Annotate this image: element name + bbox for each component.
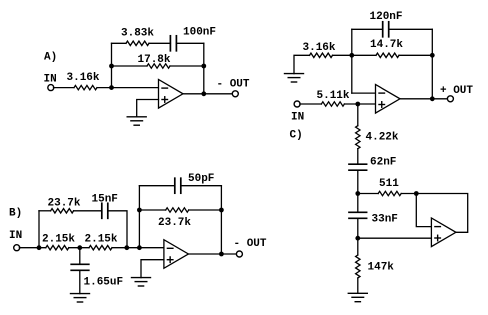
wire shunt cap to ground (B) <box>79 270 81 293</box>
op-amp U3 (C) <box>376 85 401 114</box>
node X junction dot (C) <box>355 191 360 196</box>
junction dot output node (C) <box>430 96 435 101</box>
wire R 14.7k to right column (C) <box>399 54 432 56</box>
resistor 17.8k (A) <box>147 64 170 68</box>
svg-text:50pF: 50pF <box>188 173 214 185</box>
wire right segment 17.8k row (A) <box>170 65 204 67</box>
wire op-amp inverting input left (C) <box>352 92 376 94</box>
svg-text:A): A) <box>44 52 57 64</box>
wire node X to R 511 (C) <box>358 193 378 195</box>
wire C 33nF to node Y (C) <box>357 218 359 238</box>
op-amp U1 (A) <box>159 80 184 109</box>
wire node Y to op-amp noninverting input (C) <box>358 237 432 239</box>
junction dot feedback column bottom (B) <box>137 245 142 250</box>
wire 50pF row left segment (B) <box>139 185 174 187</box>
svg-text:- OUT: - OUT <box>234 238 267 250</box>
wire 120nF row left segment (C) <box>352 28 383 30</box>
wire junction down to op-amp inverting input (C) <box>416 194 431 227</box>
node junction at noninverting input (C) <box>355 102 360 107</box>
wire feedback over top to output (C) <box>416 194 467 233</box>
resistor 4.22k (C) <box>356 126 360 149</box>
wire R 511 to junction (C) <box>401 193 416 195</box>
resistor 147k (C) <box>356 255 360 278</box>
terminal IN (B) <box>14 245 20 251</box>
svg-text:3.83k: 3.83k <box>121 28 154 40</box>
ground at op-amp + input (B) <box>132 278 151 286</box>
junction dot output node (B) <box>219 252 224 257</box>
node Y junction dot (C) <box>355 236 360 241</box>
junction dot 14.7k row left (C) <box>349 53 354 58</box>
wire input node up to 23.7k/15nF branch (B) <box>38 211 40 248</box>
junction dot after second 2.15k (B) <box>124 245 129 250</box>
capacitor 120nF (C) <box>383 22 389 37</box>
wire 120nF row right segment (C) <box>389 28 433 30</box>
resistor 3.83k (A) <box>126 41 149 45</box>
resistor 23.7k feedback (B) <box>166 208 189 212</box>
svg-text:3.16k: 3.16k <box>67 72 100 84</box>
wire IN to first node (B) <box>19 247 45 249</box>
svg-text:62nF: 62nF <box>370 157 396 169</box>
wire noninverting node down to R 4.22k (C) <box>357 104 359 126</box>
svg-text:23.7k: 23.7k <box>48 198 81 210</box>
svg-text:+ OUT: + OUT <box>440 85 473 97</box>
junction dot right end 17.8k row (A) <box>201 64 206 69</box>
wire op-amp noninverting input to ground (A) <box>137 100 159 117</box>
node junction at inverting input column (A) <box>109 85 114 90</box>
wire IN to R 3.16k (A) <box>54 87 75 89</box>
ground below 1.65uF (B) <box>71 294 90 302</box>
svg-text:23.7k: 23.7k <box>158 217 191 229</box>
wire R 23.7k to C 15nF (B) <box>74 210 102 212</box>
wire feedback column up (B) <box>138 186 140 248</box>
wire node X to C 33nF (C) <box>357 194 359 213</box>
junction dot after R 511 (C) <box>414 191 419 196</box>
resistor 5.11k (C) <box>321 102 344 106</box>
wire C 100nF to right column (A) <box>176 42 203 44</box>
ground at R 3.16k (C) <box>285 74 304 82</box>
junction dot 14.7k row right (C) <box>430 53 435 58</box>
wire right feedback column (A) <box>203 43 205 94</box>
op-amp U4 (C) <box>431 218 456 247</box>
junction dot input node (B) <box>37 245 42 250</box>
svg-text:100nF: 100nF <box>183 27 216 39</box>
svg-text:1.65uF: 1.65uF <box>84 277 124 289</box>
wire IN to R 5.11k (C) <box>300 103 322 105</box>
capacitor 15nF (B) <box>102 203 108 218</box>
wire 23.7k feedback row left segment (B) <box>139 209 165 211</box>
resistor 14.7k (C) <box>376 53 399 57</box>
svg-text:3.16k: 3.16k <box>303 42 336 54</box>
resistor 2.15k second (B) <box>89 246 112 250</box>
wire C 15nF down to main row (B) <box>108 211 127 248</box>
svg-text:2.15k: 2.15k <box>85 234 118 246</box>
wire op-amp output to OUT (C) <box>400 98 450 100</box>
wire op-amp output to OUT (B) <box>188 253 239 255</box>
junction dot 23.7k feedback row left (B) <box>137 208 142 213</box>
wire op-amp output to OUT (A) <box>183 93 235 95</box>
wire 50pF row right segment (B) <box>181 185 222 187</box>
capacitor 100nF (A) <box>170 36 176 51</box>
resistor 3.16k (C) <box>310 53 333 57</box>
wire middle node to shunt cap (B) <box>79 248 81 265</box>
terminal OUT (C) <box>447 96 453 102</box>
resistor 3.16k (A) <box>74 85 97 89</box>
resistor 511 (C) <box>378 191 401 195</box>
resistor 23.7k top (B) <box>51 209 74 213</box>
wire between 2.15k resistors (B) <box>69 247 89 249</box>
resistor 2.15k first (B) <box>46 246 69 250</box>
wire feedback right column (B) <box>220 186 222 254</box>
svg-text:17.8k: 17.8k <box>138 54 171 66</box>
op-amp U2 (B) <box>164 240 189 269</box>
junction dot output node (A) <box>201 91 206 96</box>
capacitor 33nF (C) <box>349 212 367 218</box>
wire ground corner to R 3.16k (C) <box>294 55 310 73</box>
svg-text:14.7k: 14.7k <box>370 39 403 51</box>
svg-text:IN: IN <box>9 230 22 242</box>
wire inverting input up to 14.7k row (C) <box>351 55 353 93</box>
terminal IN (A) <box>48 85 54 91</box>
junction dot 23.7k feedback row right (B) <box>219 208 224 213</box>
svg-text:511: 511 <box>379 178 399 190</box>
wire R 4.22k to C 62nF (C) <box>357 149 359 165</box>
svg-text:IN: IN <box>44 74 57 86</box>
svg-text:15nF: 15nF <box>92 194 118 206</box>
ground below 147k (C) <box>348 293 367 301</box>
svg-text:4.22k: 4.22k <box>366 132 399 144</box>
svg-text:5.11k: 5.11k <box>317 90 350 102</box>
wire R 147k to ground (C) <box>357 278 359 293</box>
wire top branch left segment (B) <box>39 210 51 212</box>
capacitor 50pF (B) <box>175 178 181 193</box>
wire left to R 3.83k (A) <box>112 42 127 44</box>
svg-text:C): C) <box>290 130 303 142</box>
terminal IN (C) <box>294 101 300 107</box>
wire R 5.11k to op-amp noninverting input (C) <box>344 103 375 105</box>
wire 23.7k feedback row right segment (B) <box>189 209 222 211</box>
svg-text:B): B) <box>9 208 22 220</box>
svg-text:33nF: 33nF <box>372 214 398 226</box>
capacitor 1.65uF (B) <box>71 264 89 270</box>
wire node Y to R 147k (C) <box>357 238 359 255</box>
junction dot left end 17.8k row (A) <box>109 64 114 69</box>
wire node to R 14.7k (C) <box>352 54 376 56</box>
svg-text:2.15k: 2.15k <box>42 234 75 246</box>
wire op-amp noninverting input to ground (B) <box>141 260 164 278</box>
wire right feedback column (C) <box>431 29 433 99</box>
wire R 3.16k to op-amp inverting input (A) <box>97 87 159 89</box>
wire left segment 17.8k row (A) <box>112 65 148 67</box>
svg-text:147k: 147k <box>368 262 395 274</box>
wire node up to feedback rows (A) <box>111 43 113 87</box>
ground at op-amp + input (A) <box>127 117 146 125</box>
wire R 3.16k to node (C) <box>333 54 352 56</box>
svg-text:120nF: 120nF <box>370 11 403 23</box>
capacitor 62nF (C) <box>349 164 367 170</box>
wire second 2.15k to op-amp inverting input (B) <box>112 247 164 249</box>
svg-text:- OUT: - OUT <box>217 79 250 91</box>
junction dot middle node (B) <box>77 245 82 250</box>
svg-text:IN: IN <box>291 112 304 124</box>
wire R 3.83k to C 100nF (A) <box>149 42 170 44</box>
terminal OUT (B) <box>236 251 242 257</box>
wire node up to 120nF row (C) <box>351 29 353 55</box>
terminal OUT (A) <box>232 91 238 97</box>
wire C 62nF to node X (C) <box>357 170 359 193</box>
